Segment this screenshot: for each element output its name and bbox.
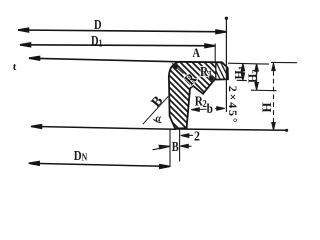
svg-text:B: B (172, 139, 179, 155)
H2 dimension (251, 64, 277, 91)
label D (94, 17, 102, 33)
svg-text:2: 2 (194, 127, 200, 143)
extension line D with top dot (225, 18, 227, 113)
svg-text:b: b (207, 101, 213, 116)
svg-text:H: H (259, 102, 274, 112)
bore line with arrow + end line with dot (31, 125, 286, 131)
label R1 with leader (200, 64, 212, 80)
label A (193, 46, 201, 60)
hatching left part (45 deg) (114, 58, 279, 130)
svg-text:A: A (193, 46, 201, 60)
H1 H2 top extension line (228, 62, 269, 65)
face line / dimension A (29, 56, 179, 61)
label R2 with leader arrow (195, 93, 207, 109)
H1 dimension (237, 64, 247, 81)
taper slant line (143, 96, 169, 124)
dimension line D (18, 28, 226, 33)
section outline (169, 62, 228, 129)
label B bottom (172, 139, 179, 155)
label b with arrow (207, 101, 213, 116)
H dimension (dashed line) (271, 62, 297, 129)
label DN (74, 148, 88, 164)
dimension 2 with arrow (181, 134, 193, 138)
svg-text:t: t (13, 61, 17, 73)
svg-text:2×45°: 2×45° (226, 86, 240, 125)
extension line D1 (214, 44, 216, 63)
B bottom dimension (153, 144, 192, 150)
internal boundary line between ring and stub (215, 62, 217, 79)
label D1 (91, 33, 102, 49)
label 2 (194, 127, 200, 143)
bottom extension lines (169, 130, 171, 167)
svg-text:D: D (94, 17, 102, 33)
dimension line D1 (20, 43, 215, 48)
DN dimension (29, 162, 170, 169)
